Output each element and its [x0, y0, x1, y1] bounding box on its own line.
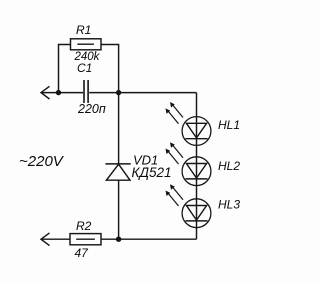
- terminal arrow: bottom AC input: [41, 233, 50, 246]
- HL3 light emission arrows: [166, 184, 184, 206]
- LED HL2: [182, 157, 211, 186]
- svg-text:C1: C1: [77, 61, 92, 75]
- capacitor C1: [84, 80, 88, 103]
- HL1 light emission arrows: [166, 102, 184, 124]
- wire: center vertical, VD1 anode to bottom junction: [118, 180, 120, 239]
- wire: bottom junction to LED branch corner: [119, 238, 197, 240]
- node: top-left junction (AC/R1/C1): [56, 90, 61, 95]
- resistor R1: [71, 39, 102, 50]
- wire: top line from arrow to C1: [41, 92, 83, 94]
- svg-text:47: 47: [75, 246, 90, 260]
- wire: LED branch vertical: [196, 93, 198, 240]
- svg-text:HL2: HL2: [218, 159, 240, 173]
- svg-text:220п: 220п: [77, 102, 106, 116]
- resistor R2: [70, 234, 101, 245]
- diode VD1: [105, 164, 130, 180]
- wire: top line from C1 to junction: [89, 92, 118, 94]
- HL2 light emission arrows: [166, 142, 184, 164]
- svg-text:HL1: HL1: [218, 118, 240, 132]
- LED HL1: [182, 117, 211, 146]
- svg-text:R1: R1: [76, 23, 91, 37]
- wire: bottom line from arrow to R2: [41, 238, 70, 240]
- LED HL3: [182, 199, 211, 228]
- svg-text:~220V: ~220V: [19, 153, 65, 170]
- node: top-right junction (R1/C1/VD1/LED): [116, 90, 121, 95]
- wire: R1 left lead: [59, 45, 71, 93]
- wire: R2 to bottom junction: [101, 238, 119, 240]
- svg-text:КД521: КД521: [132, 165, 172, 180]
- wire: top junction to LED branch corner: [119, 92, 197, 94]
- svg-text:R2: R2: [76, 219, 92, 233]
- svg-text:HL3: HL3: [218, 198, 240, 212]
- node: bottom junction (R2/VD1/LED return): [116, 237, 121, 242]
- wire: center vertical, top junction to VD1 cathode: [118, 93, 120, 164]
- terminal arrow: top AC input: [41, 86, 50, 99]
- wire: R1 right lead: [101, 45, 119, 93]
